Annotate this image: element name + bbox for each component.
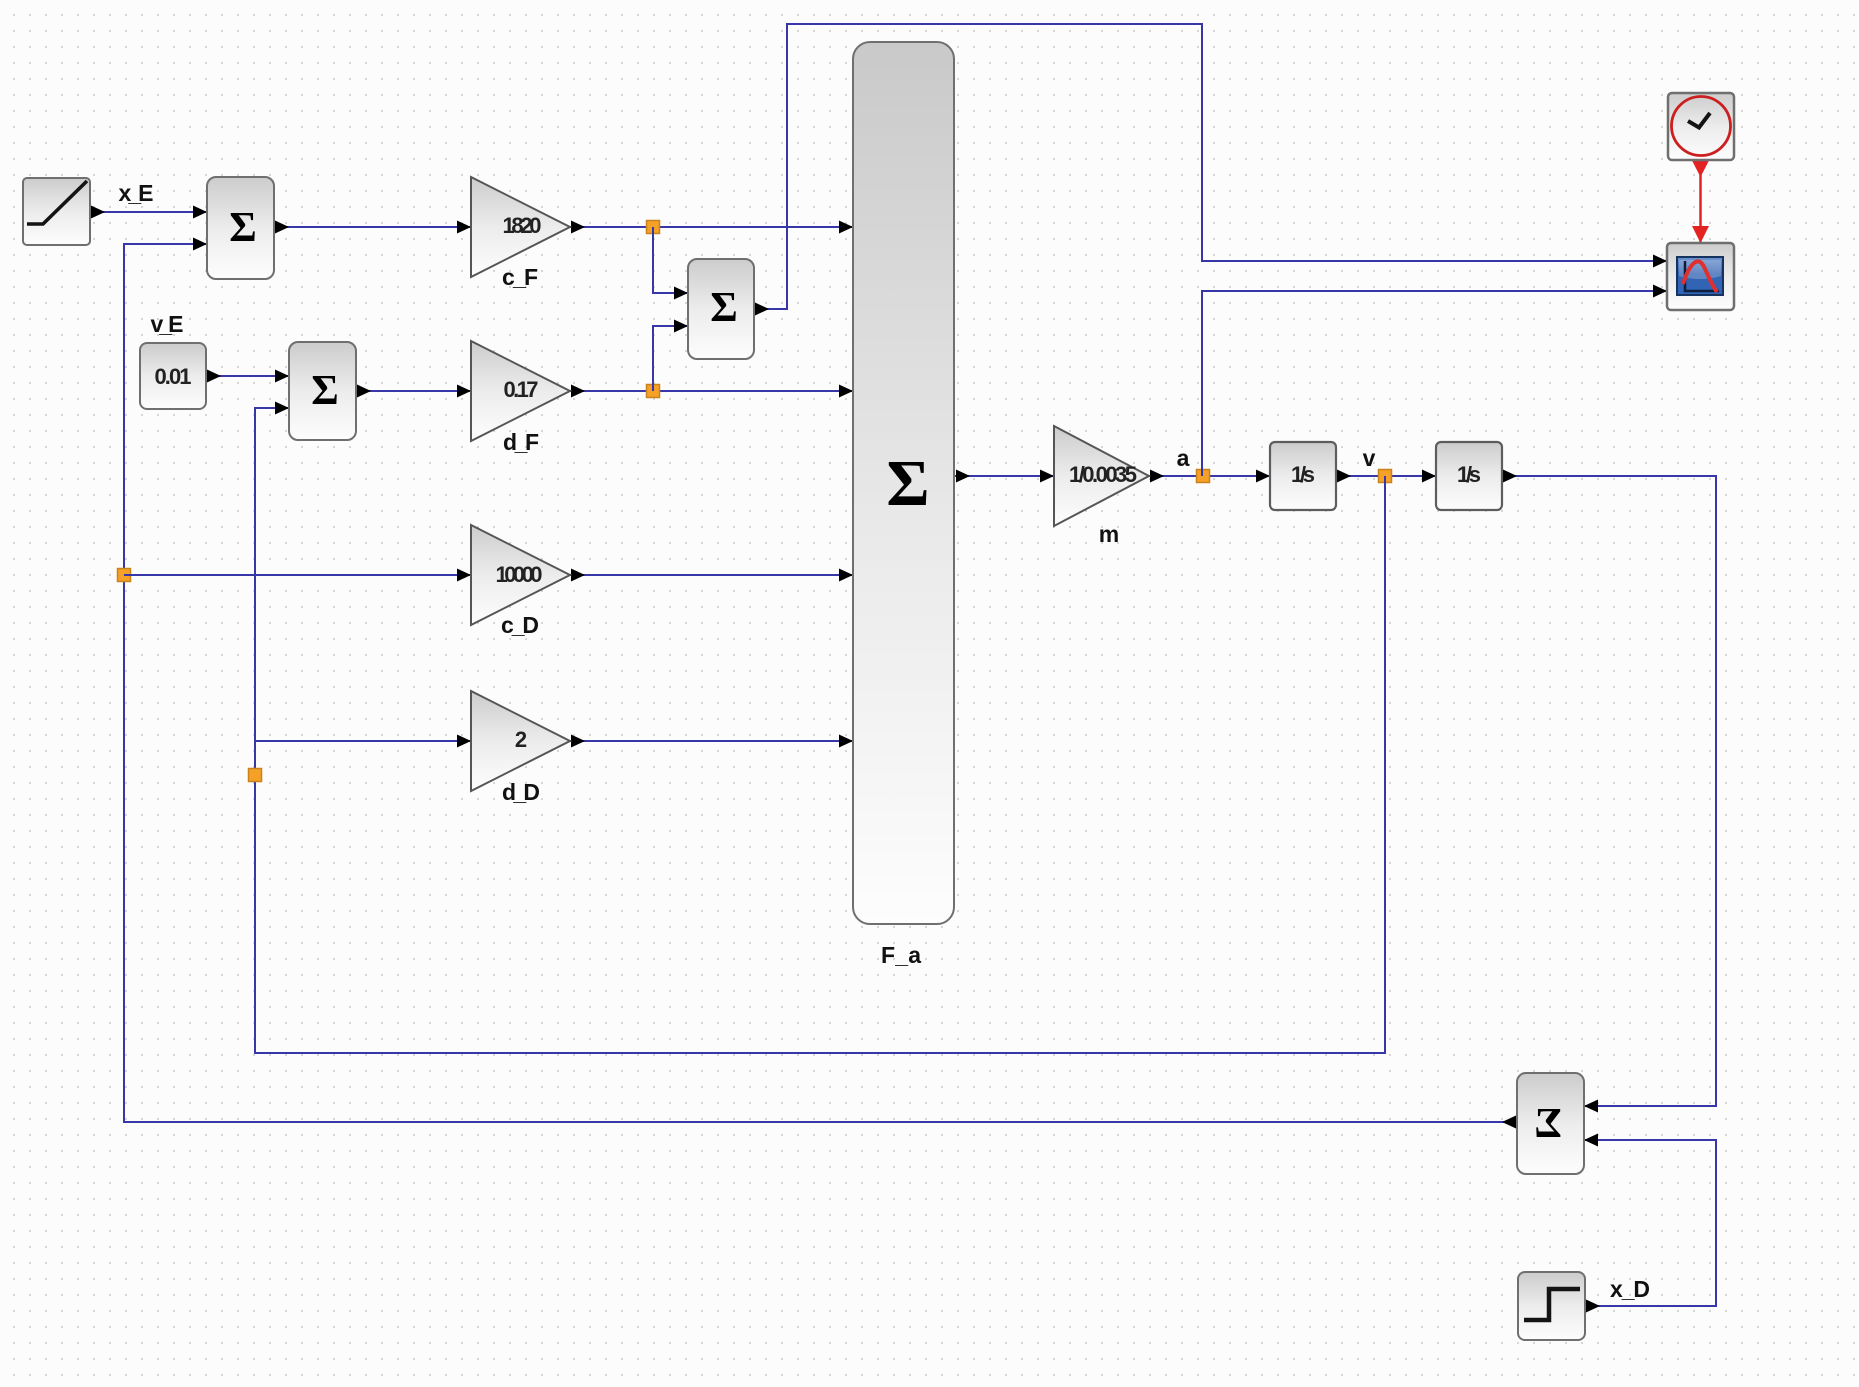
svg-text:d_D: d_D [502, 779, 540, 805]
wire big sum output to gain m input [955, 470, 1054, 483]
wire from J1 down to sum3 input1 [653, 227, 688, 300]
wire from J2 up to sum3 input2 [653, 320, 688, 392]
sum block sum1 [207, 177, 274, 279]
svg-text:1820: 1820 [503, 213, 542, 238]
step source block [1518, 1272, 1585, 1340]
svg-text:x_E: x_E [119, 180, 154, 206]
junction node v [1379, 470, 1392, 483]
gain d_D value 2 [471, 691, 570, 791]
integrator block 1/s first [1270, 442, 1336, 510]
wire gain c_D output to big sum input3 [570, 569, 853, 582]
svg-text:v_E: v_E [151, 311, 184, 337]
constant block v_E value 0.01 [140, 343, 206, 409]
svg-text:m: m [1099, 521, 1119, 547]
wire step output right and up to sum4 input2 [1584, 1134, 1716, 1313]
clock block [1668, 93, 1734, 160]
wire integrator1 output to integrator2 input through node v [1336, 470, 1436, 483]
junction J1 after gain c_F [647, 221, 660, 234]
wire from node a up to scope input2 [1202, 285, 1667, 477]
wire from x-feedback junction to gain c_D input [124, 569, 471, 582]
svg-text:Σ: Σ [311, 368, 338, 414]
red activation link clock to scope [1692, 160, 1709, 243]
wire sum3 output up over the top to scope input1 [754, 24, 1667, 316]
svg-text:v: v [1363, 445, 1376, 471]
gain m value 1/0.0035 [1054, 426, 1149, 526]
gain c_D value 10000 [471, 525, 570, 625]
svg-text:0.01: 0.01 [155, 364, 192, 389]
junction node a [1197, 470, 1210, 483]
svg-text:1/s: 1/s [1291, 462, 1315, 487]
svg-text:d_F: d_F [503, 429, 539, 455]
scope block [1667, 243, 1734, 310]
junction J2 after gain d_F [647, 385, 660, 398]
wire const 0.01 to sum2 input1 [206, 370, 289, 383]
big sum block F_a [853, 42, 954, 924]
svg-text:2: 2 [515, 727, 527, 752]
integrator block 1/s second [1436, 442, 1502, 510]
sum block sum2 [289, 342, 356, 440]
svg-text:0.17: 0.17 [504, 377, 539, 402]
wire integrator2 output right and down to sum4 input1 [1502, 470, 1716, 1113]
svg-text:1/0.0035: 1/0.0035 [1069, 462, 1137, 487]
svg-text:Σ: Σ [1534, 1101, 1561, 1147]
wire gain d_D output to big sum input4 [570, 735, 853, 748]
wire sum2 output to gain d_F input [356, 385, 471, 398]
ramp source block [23, 178, 90, 245]
svg-text:c_F: c_F [502, 264, 538, 290]
sum block sum3 [688, 259, 754, 359]
junction split on v feedback [249, 769, 262, 782]
gain d_F value 0.17 [471, 341, 570, 441]
wire gain c_F output to big sum input1 [570, 221, 853, 234]
svg-text:Σ: Σ [229, 205, 256, 251]
svg-text:F_a: F_a [881, 942, 921, 968]
wire velocity feedback from node v down and left to sum2 input2 [255, 402, 1385, 1054]
wire from v-feedback to gain d_D input [255, 735, 471, 748]
wire gain m output to integrator1 input through node a [1149, 470, 1270, 483]
gain c_F value 1820 [471, 177, 570, 277]
svg-text:1/s: 1/s [1457, 462, 1481, 487]
wire x_E from ramp to sum1 [90, 206, 207, 219]
sum block sum4 mirrored [1517, 1073, 1584, 1174]
svg-text:Σ: Σ [886, 447, 929, 520]
junction split on x feedback [118, 569, 131, 582]
svg-text:a: a [1177, 445, 1190, 471]
wire gain d_F output to big sum input2 [570, 385, 853, 398]
svg-text:c_D: c_D [501, 612, 539, 638]
svg-text:x_D: x_D [1610, 1276, 1650, 1302]
svg-text:Σ: Σ [710, 285, 737, 331]
wire sum1 output to gain c_F input [274, 221, 471, 234]
wire position feedback from sum4 output to sum1 input2 [124, 238, 1517, 1129]
svg-text:10000: 10000 [496, 562, 543, 587]
